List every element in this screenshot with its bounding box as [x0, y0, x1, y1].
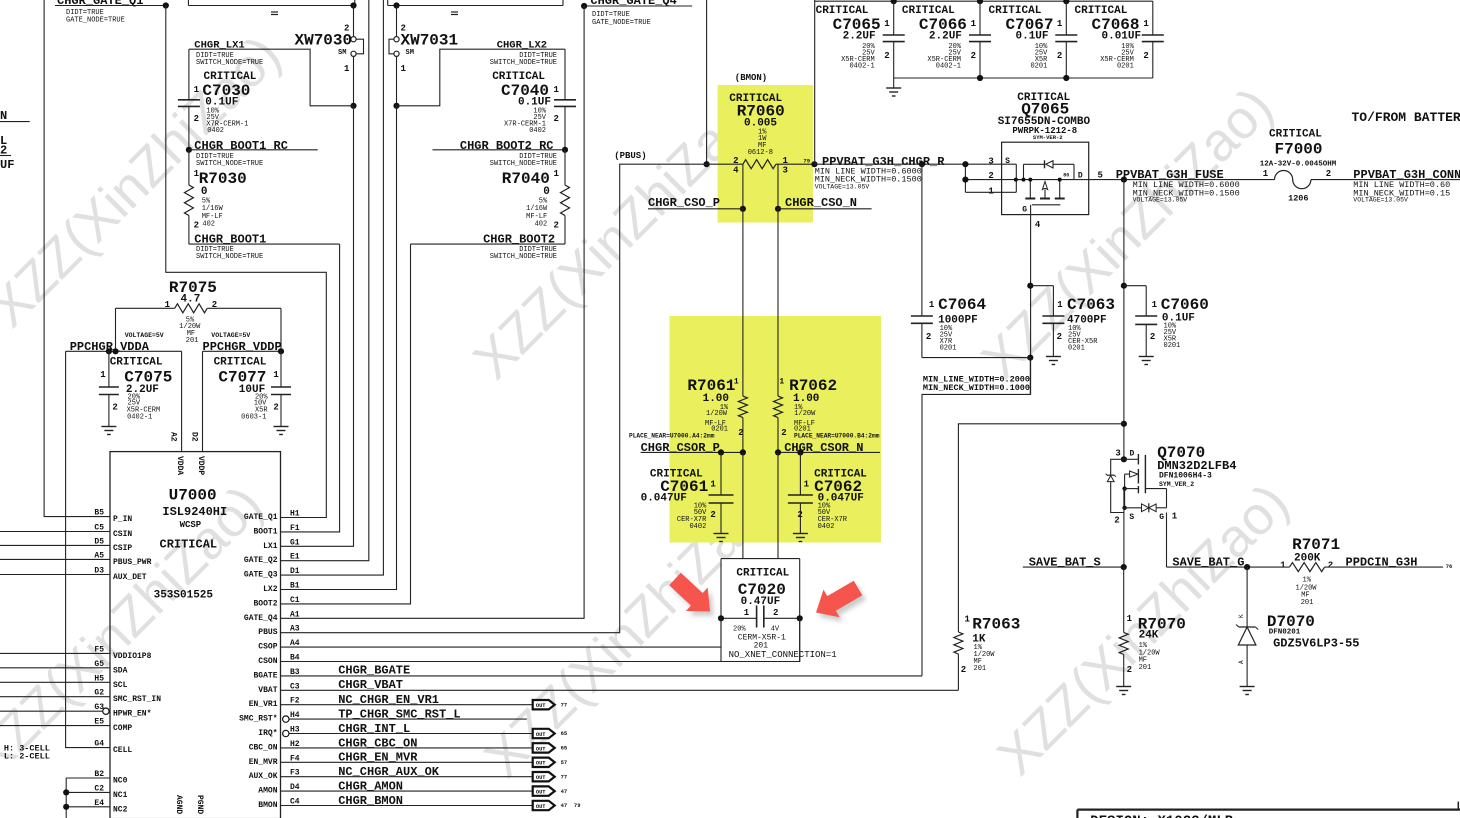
net CHGR_CSOR_N — [775, 441, 880, 456]
svg-text:1/20W: 1/20W — [706, 410, 728, 418]
svg-text:GATE_NODE=TRUE: GATE_NODE=TRUE — [592, 19, 651, 27]
wire SAVE_BAT_G riser — [1166, 513, 1168, 568]
wire C7064 bottom — [922, 357, 1030, 359]
svg-text:IRQ*: IRQ* — [258, 729, 277, 738]
junction C7030 bottom — [186, 147, 192, 153]
svg-text:0.47UF: 0.47UF — [741, 596, 781, 608]
attr VOLTAGE=5V right — [211, 332, 250, 339]
svg-text:VBAT: VBAT — [258, 686, 277, 695]
label CELL option — [4, 744, 50, 762]
svg-text:0201: 0201 — [1068, 345, 1085, 353]
ground D7070 — [1240, 687, 1255, 695]
svg-text:PLACE_NEAR=U7000.B4:2mm: PLACE_NEAR=U7000.B4:2mm — [794, 433, 880, 440]
net CHGR_INT_L — [283, 722, 533, 737]
svg-text:1: 1 — [884, 19, 890, 29]
svg-text:2: 2 — [194, 114, 199, 124]
svg-text:CSIN: CSIN — [113, 530, 132, 539]
svg-text:1: 1 — [734, 377, 739, 386]
svg-text:0: 0 — [543, 186, 550, 198]
net CHGR_AMON — [281, 780, 533, 794]
wire CHGR_GATE_Q1 to U7000 H1 — [166, 6, 326, 518]
net CHGR_LX1 — [189, 40, 354, 106]
svg-text:0402-1: 0402-1 — [936, 63, 961, 71]
net CHGR_GATE_Q4 — [581, 0, 692, 27]
svg-text:CHGR_BOOT1_RC: CHGR_BOOT1_RC — [194, 139, 288, 153]
junction C7064 tap — [919, 161, 925, 167]
svg-text:2: 2 — [926, 332, 931, 342]
svg-text:GATE_Q3: GATE_Q3 — [244, 571, 278, 580]
svg-text:EN_MVR: EN_MVR — [249, 758, 278, 767]
net fragment N — [0, 109, 30, 123]
net PPVBAT_G3H_FUSE — [1116, 168, 1240, 204]
svg-text:VDDP: VDDP — [196, 456, 205, 475]
svg-text:SWITCH_NODE=TRUE: SWITCH_NODE=TRUE — [490, 160, 557, 168]
wire CSIP — [0, 544, 110, 546]
transistor Q7070 — [1106, 444, 1237, 567]
svg-text:57: 57 — [561, 759, 568, 766]
svg-text:CHGR_CSO_P: CHGR_CSO_P — [648, 196, 720, 210]
svg-text:0402: 0402 — [529, 127, 546, 135]
svg-text:EN_VR1: EN_VR1 — [249, 700, 278, 709]
svg-text:CRITICAL: CRITICAL — [160, 537, 218, 551]
label VDDP pin D2 — [190, 432, 206, 475]
component box (cut) above XW7030 — [188, 0, 354, 15]
svg-text:1: 1 — [988, 187, 994, 197]
svg-text:CHGR_BGATE: CHGR_BGATE — [338, 664, 410, 678]
resistor R7060 — [729, 93, 814, 176]
svg-text:0402: 0402 — [818, 523, 835, 531]
svg-text:PPDCIN_G3H: PPDCIN_G3H — [1346, 556, 1418, 570]
svg-text:XW7030: XW7030 — [295, 32, 353, 50]
ground C7077 — [274, 427, 289, 435]
svg-text:0402-1: 0402-1 — [127, 414, 152, 422]
net CHGR_LX2 — [397, 40, 566, 106]
svg-text:0603-1: 0603-1 — [241, 414, 266, 422]
svg-text:2: 2 — [1057, 332, 1062, 342]
svg-text:B1: B1 — [290, 582, 300, 591]
svg-text:1: 1 — [1143, 19, 1149, 29]
net CHGR_CSO_P — [648, 196, 743, 210]
svg-text:PLACE_NEAR=U7000.A4:2mm: PLACE_NEAR=U7000.A4:2mm — [629, 433, 715, 440]
svg-text:A3: A3 — [290, 625, 300, 634]
svg-text:K: K — [1238, 614, 1245, 618]
svg-text:79: 79 — [574, 802, 581, 809]
resistor R7070 — [1119, 567, 1186, 686]
svg-text:A2: A2 — [169, 432, 178, 442]
ic U7000 right pin labels — [239, 510, 300, 811]
wire VDDA to CELL — [66, 351, 110, 747]
svg-text:2: 2 — [1114, 515, 1119, 525]
net CHGR_BOOT1_RC — [189, 139, 318, 168]
svg-text:CSOP: CSOP — [258, 643, 277, 652]
svg-text:PBUS_PWR: PBUS_PWR — [113, 558, 152, 567]
svg-text:D1: D1 — [290, 567, 300, 576]
svg-text:A4: A4 — [290, 639, 300, 648]
svg-text:DFN1006H4-3: DFN1006H4-3 — [1159, 471, 1212, 480]
wire PPVBAT vertical — [1121, 180, 1127, 460]
net PPCHGR_VDDA — [66, 340, 182, 354]
svg-text:1: 1 — [1280, 560, 1286, 570]
svg-text:402: 402 — [535, 221, 548, 229]
svg-text:24K: 24K — [1139, 630, 1159, 642]
ic U7000 body — [110, 452, 281, 818]
svg-text:2: 2 — [194, 220, 199, 230]
svg-text:1: 1 — [344, 64, 350, 74]
net CHGR_EN_MVR — [281, 751, 533, 765]
svg-text:0: 0 — [201, 186, 208, 198]
wire R7060 pin3 down — [775, 164, 781, 396]
svg-text:20%: 20% — [733, 625, 746, 633]
svg-text:2: 2 — [961, 665, 966, 675]
svg-text:C7064: C7064 — [938, 296, 986, 314]
label PBUS — [614, 151, 646, 161]
svg-text:76: 76 — [1446, 563, 1453, 570]
net CHGR_CBC_ON — [281, 736, 533, 750]
attr MIN_LINE_WIDTH 0.2 — [923, 375, 1030, 393]
wire PBUS_PWR — [0, 558, 110, 560]
label AGND pin — [174, 795, 183, 814]
svg-text:GATE_NODE=TRUE: GATE_NODE=TRUE — [66, 17, 125, 25]
wire CSOR_P to C7020 box — [742, 452, 744, 558]
svg-text:DIDT=TRUE: DIDT=TRUE — [592, 11, 630, 19]
svg-text:1: 1 — [554, 169, 560, 179]
svg-text:N: N — [0, 109, 7, 123]
flag OUT BMON — [533, 801, 581, 810]
svg-text:47: 47 — [561, 788, 568, 795]
svg-text:SDA: SDA — [113, 666, 128, 675]
svg-text:WCSP: WCSP — [180, 520, 202, 530]
svg-text:VOLTAGE=13.05V: VOLTAGE=13.05V — [1353, 197, 1408, 204]
svg-text:AUX_DET: AUX_DET — [113, 573, 147, 582]
net SAVE_BAT_G — [1167, 556, 1282, 571]
capacitor C7062 — [788, 452, 867, 533]
svg-text:5: 5 — [1098, 170, 1103, 180]
svg-text:U7000: U7000 — [169, 486, 217, 504]
svg-text:0.1UF: 0.1UF — [1016, 30, 1049, 42]
svg-text:1: 1 — [401, 64, 407, 74]
resistor R7040 — [502, 150, 570, 244]
jumper XW7030 — [295, 2, 364, 105]
capacitor C7075 — [99, 351, 172, 426]
svg-text:NC0: NC0 — [113, 777, 128, 786]
svg-text:VOLTAGE=13.05V: VOLTAGE=13.05V — [815, 184, 870, 191]
svg-text:SYM-VER-2: SYM-VER-2 — [1033, 134, 1063, 141]
svg-text:1: 1 — [779, 377, 784, 386]
wire CSOR_N to C7020 box — [777, 452, 779, 558]
svg-text:SWITCH_NODE=TRUE: SWITCH_NODE=TRUE — [490, 59, 557, 67]
ground cap bank — [886, 88, 901, 96]
svg-text:1: 1 — [1057, 19, 1063, 29]
capacitor C7065 — [816, 1, 905, 78]
net CHGR_BOOT1 — [189, 233, 340, 262]
svg-text:(PBUS): (PBUS) — [614, 151, 646, 161]
net NC_CHGR_AUX_OK — [281, 765, 533, 779]
label fragment UF — [0, 158, 14, 172]
svg-text:1: 1 — [554, 85, 560, 95]
highlight box R7061 R7062 C7061 C7062 — [670, 316, 882, 543]
svg-text:402: 402 — [202, 221, 215, 229]
svg-text:(BMON): (BMON) — [735, 73, 767, 83]
svg-text:MIN_NECK_WIDTH=0.1000: MIN_NECK_WIDTH=0.1000 — [923, 383, 1030, 393]
resistor R7061 — [687, 377, 747, 452]
component box (cut) above XW7031 — [388, 0, 563, 15]
svg-text:0201: 0201 — [1117, 63, 1134, 71]
wire CSIN — [0, 531, 110, 533]
resistor R7030 — [184, 150, 246, 244]
net PPCHGR_VDDP — [203, 340, 285, 354]
label fragment L — [0, 134, 7, 148]
svg-text:1: 1 — [1057, 300, 1063, 310]
ic U7000 left pin labels — [94, 509, 161, 815]
svg-text:DESIGN: X1022/MLB: DESIGN: X1022/MLB — [1090, 814, 1233, 818]
jumper XW7031 — [389, 2, 458, 105]
net SAVE_BAT_S — [1023, 556, 1127, 571]
junction R7060 pin1 — [811, 161, 817, 167]
svg-text:201: 201 — [186, 337, 199, 345]
wire SMC_RST_IN — [0, 696, 110, 698]
svg-text:GATE_Q4: GATE_Q4 — [244, 614, 278, 623]
svg-text:1: 1 — [744, 608, 750, 618]
svg-text:80: 80 — [1063, 173, 1069, 179]
svg-text:0612-8: 0612-8 — [748, 149, 773, 157]
label PGND pin — [195, 795, 204, 814]
attr PLACE_NEAR R7061 — [629, 433, 715, 440]
net CHGR_CSO_N — [778, 196, 872, 210]
svg-text:LX2: LX2 — [263, 585, 278, 594]
ground R7070 — [1116, 687, 1131, 695]
svg-text:CBC_ON: CBC_ON — [249, 743, 278, 752]
svg-text:PBUS: PBUS — [258, 628, 277, 637]
svg-text:SWITCH_NODE=TRUE: SWITCH_NODE=TRUE — [196, 160, 263, 168]
svg-text:VOLTAGE=5V: VOLTAGE=5V — [125, 332, 164, 339]
svg-text:79: 79 — [803, 158, 810, 165]
wire PBUS — [281, 164, 743, 633]
ground C7075 — [101, 427, 116, 435]
annotation arrow left — [669, 573, 713, 616]
svg-text:F7000: F7000 — [1275, 141, 1323, 159]
wire Q7065 gate down — [1027, 207, 1033, 394]
svg-text:0402: 0402 — [689, 523, 706, 531]
svg-text:2: 2 — [1328, 560, 1333, 570]
attr VOLTAGE=5V left — [125, 332, 164, 339]
svg-text:C7063: C7063 — [1067, 296, 1115, 314]
capacitor C7061 — [641, 452, 734, 533]
svg-text:1206: 1206 — [1288, 194, 1308, 204]
svg-text:1: 1 — [1127, 614, 1133, 624]
svg-text:CHGR_GATE_Q1: CHGR_GATE_Q1 — [57, 0, 143, 8]
svg-text:G: G — [1159, 513, 1164, 522]
svg-text:SYM_VER_2: SYM_VER_2 — [1159, 481, 1194, 488]
capacitor C7066 — [902, 1, 991, 78]
wire SAVE_BAT to R7063 — [958, 424, 1124, 632]
svg-text:2: 2 — [781, 428, 786, 438]
wire P_IN from left — [44, 0, 110, 517]
capacitor C7077 — [214, 351, 291, 426]
flag OUT EN_VR1 — [533, 700, 568, 709]
svg-text:OUT: OUT — [536, 703, 546, 709]
svg-text:GATE_Q2: GATE_Q2 — [244, 556, 278, 565]
wire CSOP row — [281, 618, 722, 647]
svg-text:201: 201 — [1301, 599, 1314, 607]
wire BGATE row — [281, 675, 923, 677]
wire top bus — [815, 0, 1153, 4]
svg-text:HPWR_EN*: HPWR_EN* — [113, 710, 151, 719]
svg-text:0.01UF: 0.01UF — [1102, 30, 1142, 42]
svg-text:DFN0201: DFN0201 — [1269, 629, 1301, 637]
resistor R7063 — [954, 614, 1020, 690]
svg-text:3: 3 — [988, 156, 993, 166]
capacitor C7063 — [1030, 286, 1115, 356]
junction XW7030 pin1 — [350, 103, 356, 109]
svg-text:2: 2 — [710, 510, 715, 520]
wire GATE_Q3 to U7000 D1 — [281, 0, 384, 575]
svg-text:SWITCH_NODE=TRUE: SWITCH_NODE=TRUE — [490, 253, 557, 261]
wire SCL — [0, 681, 110, 683]
svg-text:1: 1 — [100, 370, 106, 380]
net CHGR_VBAT — [338, 678, 403, 692]
wire SDA — [0, 667, 110, 669]
label D7070 — [1267, 613, 1360, 651]
wire BMON vertical — [704, 0, 710, 167]
svg-text:OUT: OUT — [536, 775, 546, 781]
svg-text:CHGR_LX2: CHGR_LX2 — [497, 40, 547, 52]
capacitor C7030 — [178, 49, 257, 150]
net CHGR_BOOT2 — [411, 233, 566, 262]
svg-text:2: 2 — [273, 402, 278, 412]
svg-text:ISL9240HI: ISL9240HI — [162, 505, 227, 519]
wire R7060 pin4 down — [740, 164, 746, 396]
wire COMP — [0, 725, 110, 727]
svg-text:VOLTAGE=13.05V: VOLTAGE=13.05V — [1133, 197, 1188, 204]
wire GATE_Q2 to U7000 E1 — [281, 0, 369, 561]
net TP_CHGR_SMC_RST_L — [283, 708, 527, 723]
svg-text:200K: 200K — [1294, 552, 1321, 564]
svg-text:TO/FROM BATTERY: TO/FROM BATTERY — [1352, 110, 1460, 125]
svg-text:SMC_RST*: SMC_RST* — [239, 715, 277, 724]
junction C7040 bottom — [562, 147, 568, 153]
svg-text:4: 4 — [1035, 220, 1041, 230]
wire CHGR_GATE_Q4 to U7000 A1 — [281, 6, 585, 618]
ground C7062 — [793, 534, 808, 542]
svg-text:H1: H1 — [290, 510, 300, 519]
svg-text:CRITICAL: CRITICAL — [1269, 128, 1322, 140]
svg-text:VOLTAGE=5V: VOLTAGE=5V — [211, 332, 250, 339]
svg-text:OUT: OUT — [536, 732, 546, 738]
resistor R7062 — [774, 377, 838, 452]
svg-text:CSIP: CSIP — [113, 544, 132, 553]
net CHGR_BOOT2_RC — [433, 139, 566, 168]
svg-text:CSON: CSON — [258, 657, 277, 666]
svg-text:1: 1 — [804, 480, 810, 490]
svg-text:A: A — [1238, 660, 1245, 664]
svg-text:S: S — [1129, 513, 1134, 522]
svg-text:0.047UF: 0.047UF — [641, 492, 687, 504]
svg-text:D: D — [1078, 171, 1083, 180]
ground C7063 — [1046, 357, 1061, 365]
svg-text:1: 1 — [194, 85, 200, 95]
annotation arrow right — [816, 581, 866, 622]
resistor R7075 — [116, 279, 282, 351]
wire cap bank bottom bus — [894, 75, 1153, 88]
svg-text:AUX_OK: AUX_OK — [249, 772, 278, 781]
net CHGR_BMON — [281, 794, 533, 808]
svg-text:12A-32V-0.0045OHM: 12A-32V-0.0045OHM — [1260, 161, 1337, 169]
label TO/FROM BATTERY — [1352, 110, 1460, 125]
svg-text:GDZ5V6LP3-55: GDZ5V6LP3-55 — [1273, 637, 1359, 651]
svg-text:SM: SM — [406, 49, 414, 57]
svg-text:SWITCH_NODE=TRUE: SWITCH_NODE=TRUE — [196, 59, 263, 67]
wire gate return — [922, 358, 1030, 676]
svg-text:353S01525: 353S01525 — [154, 590, 214, 602]
svg-text:OUT: OUT — [536, 746, 546, 752]
resistor R7071 — [1280, 536, 1443, 607]
svg-text:CRITICAL: CRITICAL — [736, 568, 789, 580]
svg-text:2: 2 — [1127, 665, 1132, 675]
svg-text:BMON: BMON — [258, 801, 277, 810]
capacitor C7064 — [911, 164, 987, 357]
svg-text:VDDA: VDDA — [175, 456, 184, 475]
svg-text:SWITCH_NODE=TRUE: SWITCH_NODE=TRUE — [196, 253, 263, 261]
capacitor C7060 — [1124, 286, 1209, 356]
svg-text:CRITICAL: CRITICAL — [110, 357, 163, 369]
svg-text:4.7: 4.7 — [181, 293, 201, 305]
svg-text:201: 201 — [974, 665, 987, 673]
svg-text:NC1: NC1 — [113, 791, 128, 800]
svg-text:4V: 4V — [771, 625, 780, 633]
svg-text:D: D — [1130, 449, 1135, 458]
svg-text:2: 2 — [112, 402, 117, 412]
wire VDDP to U7000 D2 — [202, 351, 204, 451]
svg-text:2: 2 — [884, 51, 889, 61]
svg-text:0402-1: 0402-1 — [849, 63, 874, 71]
svg-text:1: 1 — [710, 480, 716, 490]
svg-text:1: 1 — [1263, 169, 1269, 179]
svg-text:201: 201 — [1139, 664, 1152, 672]
net NC_CHGR_EN_VR1 — [281, 693, 533, 707]
title block — [1077, 802, 1460, 818]
svg-text:SCL: SCL — [113, 681, 128, 690]
svg-text:BOOT2: BOOT2 — [253, 599, 277, 608]
net PPDCIN_G3H — [1346, 556, 1453, 571]
svg-text:UF: UF — [0, 158, 14, 172]
flag OUT CBC_ON — [533, 743, 568, 752]
svg-text:1%: 1% — [1303, 577, 1312, 585]
svg-text:2: 2 — [773, 608, 778, 618]
svg-text:G1: G1 — [290, 538, 300, 547]
svg-text:D2: D2 — [190, 432, 199, 442]
svg-text:SM: SM — [338, 49, 346, 57]
capacitor C7067 — [989, 1, 1078, 78]
svg-text:SMC_RST_IN: SMC_RST_IN — [113, 695, 161, 704]
svg-text:PPCHGR_VDDP: PPCHGR_VDDP — [203, 340, 282, 354]
svg-text:77: 77 — [561, 701, 568, 708]
svg-text:F1: F1 — [290, 524, 300, 533]
capacitor C7020 — [718, 559, 803, 662]
wire LX1 to U7000 G1 — [281, 106, 354, 547]
svg-text:2: 2 — [1143, 51, 1148, 61]
attr PLACE_NEAR R7062 — [794, 433, 880, 440]
svg-text:LX1: LX1 — [263, 542, 278, 551]
wire NC0 NC1 NC2 — [63, 778, 110, 818]
svg-text:1/20W: 1/20W — [794, 410, 816, 418]
svg-text:2: 2 — [554, 114, 559, 124]
highlight box R7060 — [718, 85, 813, 223]
svg-text:COMP: COMP — [113, 724, 132, 733]
svg-text:CELL: CELL — [113, 746, 132, 755]
svg-text:4: 4 — [733, 166, 739, 176]
svg-text:0201: 0201 — [1030, 63, 1047, 71]
svg-text:CHGR_BOOT2_RC: CHGR_BOOT2_RC — [460, 139, 554, 153]
